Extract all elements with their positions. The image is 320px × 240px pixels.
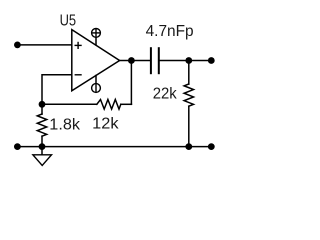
svg-text:1.8k: 1.8k: [49, 117, 81, 134]
svg-text:U5: U5: [60, 13, 77, 30]
svg-text:22k: 22k: [153, 85, 178, 102]
svg-text:12k: 12k: [92, 116, 119, 133]
svg-text:4.7nFp: 4.7nFp: [146, 23, 194, 40]
